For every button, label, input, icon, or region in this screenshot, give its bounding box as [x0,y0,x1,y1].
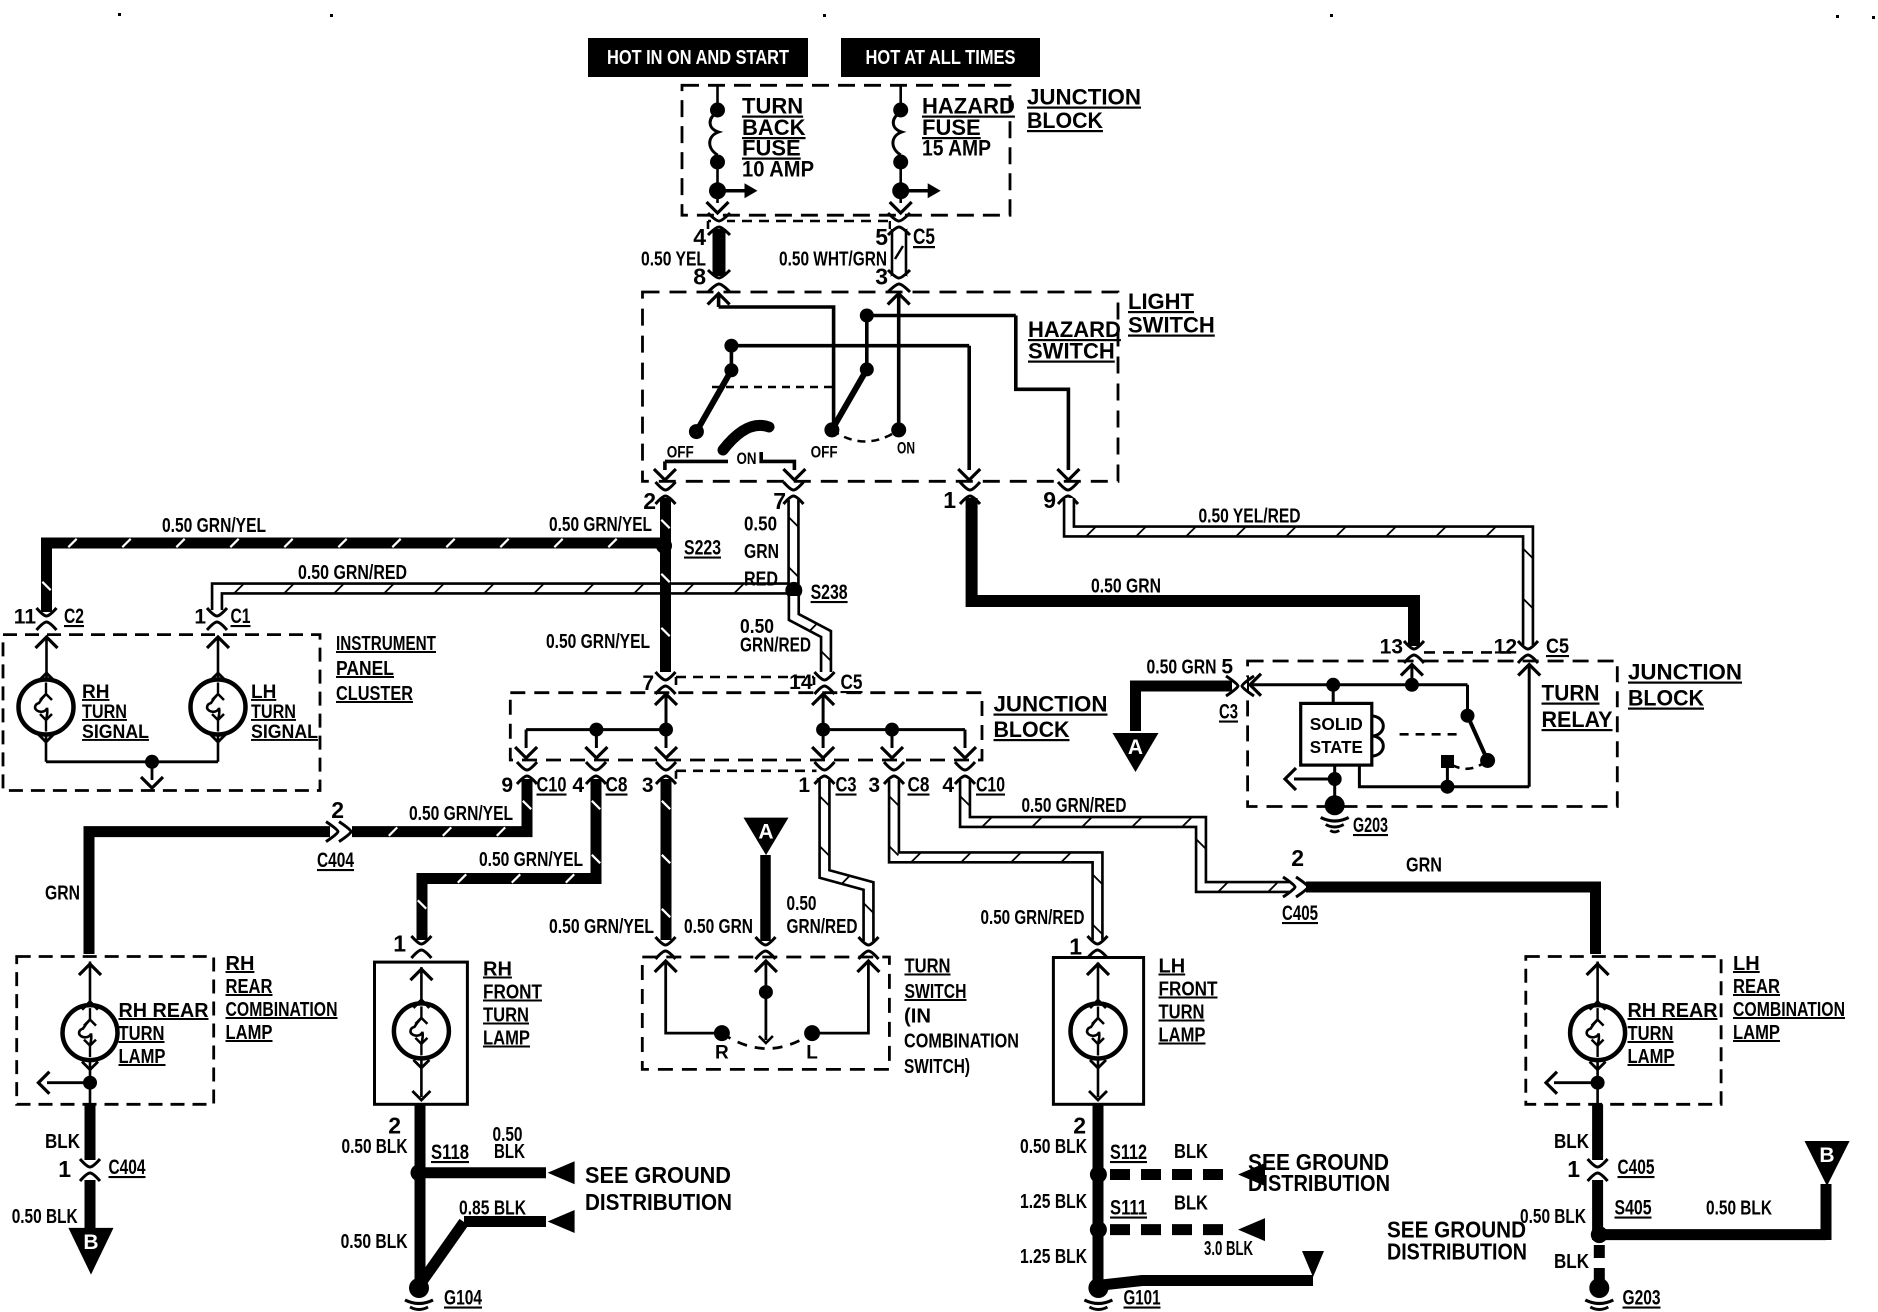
svg-text:GRN: GRN [744,541,779,563]
svg-text:B: B [1819,1144,1834,1167]
svg-text:0.50 GRN/YEL: 0.50 GRN/YEL [546,631,650,653]
svg-text:C3: C3 [1219,701,1238,724]
svg-text:C5: C5 [1546,635,1569,658]
svg-text:LIGHT: LIGHT [1128,289,1195,314]
svg-text:C10: C10 [537,774,567,797]
svg-text:0.50 GRN/RED: 0.50 GRN/RED [981,907,1085,929]
svg-text:CLUSTER: CLUSTER [336,683,413,705]
svg-text:S405: S405 [1615,1197,1652,1220]
svg-text:9: 9 [1043,487,1056,513]
svg-text:C5: C5 [913,224,935,249]
svg-text:1: 1 [1069,934,1082,960]
svg-text:LAMP: LAMP [483,1028,530,1050]
svg-text:BLK: BLK [1554,1251,1589,1273]
svg-text:1: 1 [943,487,956,513]
svg-text:0.85 BLK: 0.85 BLK [459,1198,526,1220]
svg-text:0.50 GRN: 0.50 GRN [1147,657,1217,679]
svg-text:1: 1 [393,931,406,957]
svg-text:DISTRIBUTION: DISTRIBUTION [1248,1170,1390,1196]
svg-text:TURN: TURN [1628,1023,1674,1045]
svg-text:TURN: TURN [251,702,296,723]
svg-text:5: 5 [875,224,888,250]
svg-text:0.50 BLK: 0.50 BLK [342,1136,408,1158]
svg-text:TURN: TURN [1159,1002,1205,1024]
svg-text:S118: S118 [431,1141,469,1164]
svg-text:3: 3 [868,774,880,797]
svg-text:PANEL: PANEL [336,658,394,680]
svg-text:0.50 GRN/RED: 0.50 GRN/RED [298,562,407,584]
svg-text:0.50 BLK: 0.50 BLK [1020,1136,1087,1158]
svg-text:REAR: REAR [226,976,273,998]
svg-text:B: B [83,1231,98,1254]
svg-text:C404: C404 [109,1156,146,1179]
svg-text:0.50: 0.50 [744,514,777,536]
svg-text:BLOCK: BLOCK [1027,108,1103,133]
svg-text:GRN/RED: GRN/RED [740,635,811,657]
svg-text:0.50 GRN: 0.50 GRN [1091,576,1161,598]
svg-text:2: 2 [643,488,656,514]
svg-text:INSTRUMENT: INSTRUMENT [336,633,436,655]
svg-text:4: 4 [693,224,706,250]
svg-text:TURN: TURN [905,956,951,978]
svg-text:RH: RH [226,953,255,975]
svg-text:LAMP: LAMP [119,1046,166,1068]
svg-text:COMBINATION: COMBINATION [1733,999,1845,1021]
svg-text:JUNCTION: JUNCTION [994,692,1108,717]
svg-text:L: L [806,1043,818,1064]
svg-text:GRN: GRN [45,883,80,905]
svg-text:G203: G203 [1353,814,1388,837]
svg-text:ON: ON [737,449,757,468]
svg-text:(IN: (IN [904,1006,931,1028]
svg-text:0.50 GRN/YEL: 0.50 GRN/YEL [409,803,513,825]
svg-text:C8: C8 [908,774,930,797]
svg-text:1: 1 [798,774,810,797]
svg-text:SWITCH): SWITCH) [904,1056,970,1078]
svg-text:C2: C2 [64,605,84,628]
svg-text:FRONT: FRONT [483,982,542,1004]
svg-text:LH: LH [251,682,276,703]
svg-text:4: 4 [942,774,954,797]
svg-text:11: 11 [14,606,37,629]
svg-text:RED: RED [744,569,778,591]
svg-text:0.50 YEL: 0.50 YEL [641,249,706,271]
svg-text:BLOCK: BLOCK [1628,686,1704,711]
svg-text:1: 1 [194,606,206,629]
svg-text:FRONT: FRONT [1159,979,1218,1001]
svg-text:R: R [715,1043,729,1064]
svg-text:RELAY: RELAY [1542,707,1613,732]
svg-text:RH REAR: RH REAR [1628,1000,1719,1022]
svg-text:10 AMP: 10 AMP [742,157,814,182]
svg-text:LAMP: LAMP [226,1022,273,1044]
svg-text:HOT IN ON AND START: HOT IN ON AND START [607,47,789,69]
svg-text:2: 2 [1291,845,1304,871]
svg-text:C10: C10 [976,774,1005,797]
svg-text:C405: C405 [1282,902,1318,925]
svg-text:SWITCH: SWITCH [1128,313,1215,338]
svg-text:JUNCTION: JUNCTION [1027,85,1141,110]
svg-text:1: 1 [58,1156,71,1182]
svg-text:BLK: BLK [1174,1141,1208,1163]
svg-text:C405: C405 [1618,1156,1655,1179]
svg-text:LH: LH [1733,953,1760,975]
svg-text:0.50 GRN/RED: 0.50 GRN/RED [1022,795,1127,817]
svg-text:0.50 BLK: 0.50 BLK [1706,1198,1772,1220]
svg-text:12: 12 [1494,636,1517,659]
svg-text:G104: G104 [444,1287,482,1310]
svg-text:SEE GROUND: SEE GROUND [585,1162,731,1188]
svg-text:3.0 BLK: 3.0 BLK [1204,1238,1253,1260]
svg-text:S112: S112 [1110,1141,1147,1164]
svg-text:0.50 GRN/YEL: 0.50 GRN/YEL [549,916,654,938]
svg-text:1: 1 [1567,1156,1580,1182]
svg-text:BLK: BLK [45,1131,80,1153]
svg-text:TURN: TURN [119,1023,165,1045]
svg-text:LAMP: LAMP [1159,1025,1206,1047]
svg-text:ON: ON [897,439,915,458]
svg-text:LAMP: LAMP [1733,1022,1780,1044]
svg-text:TURN: TURN [1542,681,1600,706]
svg-text:C5: C5 [841,671,863,694]
svg-text:BLOCK: BLOCK [994,717,1070,742]
svg-text:5: 5 [1221,656,1233,679]
svg-text:RH REAR: RH REAR [119,1000,210,1022]
svg-text:TURN: TURN [483,1005,529,1027]
svg-text:RH: RH [82,682,109,703]
svg-text:A: A [758,821,773,844]
svg-text:REAR: REAR [1733,976,1780,998]
svg-text:1.25 BLK: 1.25 BLK [1020,1191,1087,1213]
svg-text:3: 3 [642,774,654,797]
svg-text:OFF: OFF [667,443,694,462]
svg-text:LAMP: LAMP [1628,1046,1675,1068]
svg-text:DISTRIBUTION: DISTRIBUTION [585,1189,732,1215]
svg-text:2: 2 [1073,1113,1086,1139]
svg-text:SIGNAL: SIGNAL [251,722,318,743]
svg-text:0.50: 0.50 [787,893,817,915]
svg-text:G203: G203 [1623,1287,1661,1310]
svg-text:13: 13 [1380,636,1403,659]
svg-text:SWITCH: SWITCH [1028,339,1115,364]
svg-text:0.50 GRN/YEL: 0.50 GRN/YEL [479,849,583,871]
svg-text:TURN: TURN [82,702,127,723]
svg-text:SWITCH: SWITCH [905,981,967,1003]
svg-text:G101: G101 [1124,1287,1161,1310]
svg-text:COMBINATION: COMBINATION [904,1031,1019,1053]
svg-text:C404: C404 [317,849,354,872]
svg-text:S238: S238 [811,581,848,604]
svg-text:BLK: BLK [1174,1193,1208,1215]
svg-text:9: 9 [501,774,513,797]
svg-text:0.50 GRN/YEL: 0.50 GRN/YEL [162,515,266,537]
svg-text:RH: RH [483,959,512,981]
svg-text:BLK: BLK [1554,1131,1589,1153]
svg-text:C1: C1 [231,605,251,628]
svg-text:S111: S111 [1110,1197,1147,1220]
svg-text:0.50 YEL/RED: 0.50 YEL/RED [1199,506,1301,528]
svg-text:SOLID: SOLID [1310,714,1363,734]
svg-text:JUNCTION: JUNCTION [1628,660,1742,685]
svg-text:1.25 BLK: 1.25 BLK [1020,1246,1087,1268]
svg-text:0.50 BLK: 0.50 BLK [1520,1206,1586,1228]
svg-text:BLK: BLK [494,1141,525,1163]
svg-text:SIGNAL: SIGNAL [82,722,149,743]
svg-text:0.50 WHT/GRN: 0.50 WHT/GRN [779,249,887,271]
svg-text:0.50 GRN/YEL: 0.50 GRN/YEL [549,514,652,536]
svg-text:DISTRIBUTION: DISTRIBUTION [1387,1239,1527,1265]
svg-text:STATE: STATE [1310,737,1363,757]
svg-text:GRN/RED: GRN/RED [787,916,858,938]
svg-text:15 AMP: 15 AMP [922,136,991,161]
svg-text:0.50 BLK: 0.50 BLK [341,1231,408,1253]
svg-text:C8: C8 [606,774,628,797]
svg-text:OFF: OFF [811,443,838,462]
svg-text:4: 4 [572,774,584,797]
svg-text:HOT AT ALL TIMES: HOT AT ALL TIMES [866,47,1016,69]
svg-text:0.50 GRN: 0.50 GRN [684,916,753,938]
svg-text:S223: S223 [684,537,721,560]
svg-text:COMBINATION: COMBINATION [226,999,338,1021]
svg-text:2: 2 [331,797,344,823]
svg-text:2: 2 [388,1113,401,1139]
svg-text:14: 14 [789,671,813,694]
svg-text:GRN: GRN [1406,855,1442,877]
svg-text:LH: LH [1159,956,1186,978]
svg-text:7: 7 [773,488,786,514]
svg-text:0.50 BLK: 0.50 BLK [12,1206,78,1228]
svg-text:A: A [1128,736,1143,759]
svg-text:C3: C3 [836,774,857,797]
